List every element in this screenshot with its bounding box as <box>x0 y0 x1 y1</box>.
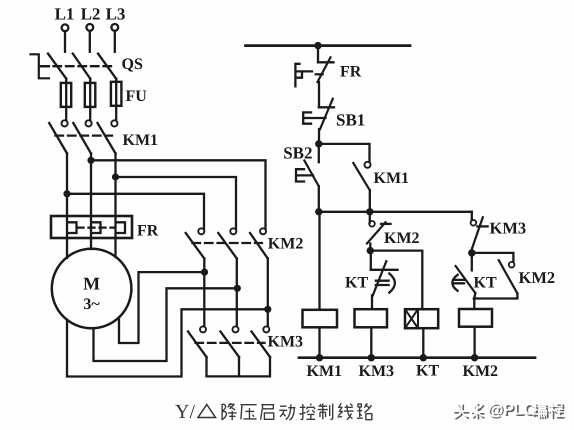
terminal L2 <box>86 24 93 31</box>
svg-text:L2: L2 <box>81 4 101 23</box>
wire node A to KM1 aux <box>319 144 370 162</box>
glyph 线 <box>337 403 353 419</box>
contactor KM1 main blade 2 <box>73 123 91 153</box>
wire KM2 coil to bottom rail <box>473 327 475 358</box>
contactor KM3 main blade 1 <box>188 332 207 358</box>
KT NO delay bars <box>453 280 464 283</box>
coil KM1 <box>303 310 338 328</box>
glyph 控 <box>299 404 315 420</box>
svg-text:KM2: KM2 <box>519 268 556 287</box>
KM3 NC interlock blade <box>472 217 483 248</box>
wire phase W KM1 to FR <box>114 153 116 216</box>
contactor KM2 linkage dashed <box>193 242 263 244</box>
wire top node to FR contact <box>317 46 319 63</box>
svg-text:KM3: KM3 <box>490 219 527 238</box>
svg-text:L1: L1 <box>55 4 75 23</box>
caption Chinese text 降压启动控制线路 <box>222 403 372 420</box>
KM3 NC interlock tick <box>477 225 487 227</box>
coil KM3 <box>355 309 388 327</box>
junction node E <box>468 249 475 256</box>
wire node E to KM2 aux <box>472 253 514 262</box>
svg-text:Y/: Y/ <box>175 401 195 423</box>
SB2 NO button blade <box>304 161 318 187</box>
FR heater element 1 <box>67 216 77 238</box>
wire phase V KM1 to FR <box>90 153 92 216</box>
wire QS to FU 1 <box>65 79 67 83</box>
control bottom rail <box>299 356 535 359</box>
KM2 aux NO blade <box>499 260 518 293</box>
contactor KM1 main hook 1 <box>62 120 68 126</box>
KM1 aux NO blade <box>353 163 370 190</box>
junction KM1 coil bottom <box>316 354 323 361</box>
SB1 button actuator E <box>303 112 325 123</box>
wire KT NO to KM2 coil <box>474 293 475 309</box>
KT NO delayed contact lead <box>471 253 473 271</box>
wire L3 to QS <box>114 31 116 52</box>
FR NC contact lower tick <box>316 73 323 75</box>
glyph 制 <box>318 404 333 420</box>
switch QS blade 3 <box>98 54 116 79</box>
switch QS linkage dashed <box>41 65 111 67</box>
control top rail <box>246 44 411 47</box>
contactor KM2 main hook 3 <box>260 228 266 234</box>
junction node C <box>366 208 373 215</box>
contactor KM2 main blade 2 <box>218 233 237 259</box>
wire KM3 coil to bottom rail <box>370 327 372 357</box>
watermark shadow layer <box>455 405 564 419</box>
FR thermal actuator symbol <box>295 64 312 87</box>
contactor KM1 main blade 3 <box>98 123 116 153</box>
wire KT NC to KM3 coil <box>371 295 373 309</box>
coil KM2 <box>459 309 492 327</box>
KT NC delayed contact blade <box>373 261 387 295</box>
wire motor terminal W2 wrap to KM2 pole1 bottom <box>119 272 206 343</box>
junction KM2 pole1 bottom <box>201 269 208 276</box>
KM3 NC interlock lead from rail <box>471 212 473 220</box>
contactor KM1 main hook 3 <box>111 120 117 126</box>
contactor KM2 main blade 3 <box>250 233 268 259</box>
svg-text:@PLC: @PLC <box>488 402 536 419</box>
wire U branch to KM2 pole1 <box>67 194 204 229</box>
control mid rail <box>319 211 472 213</box>
junction node U phase <box>63 190 70 197</box>
wire SB1 to node A <box>318 129 320 144</box>
FR NC contact blade <box>318 57 331 82</box>
KM1 aux NO hook <box>365 162 371 168</box>
KM3 NC interlock hook <box>471 220 477 226</box>
KM2 NC interlock blade <box>367 222 386 243</box>
svg-text:FR: FR <box>340 64 362 81</box>
svg-text:KT: KT <box>345 275 368 292</box>
svg-text:KM1: KM1 <box>307 363 343 380</box>
contactor KM3 main blade 2 <box>221 332 240 358</box>
junction node W phase <box>112 173 119 180</box>
contactor KM2 main hook 1 <box>198 228 204 234</box>
svg-text:QS: QS <box>122 56 143 73</box>
contactor KM1 linkage dashed <box>56 134 113 136</box>
contactor KM3 main hook 1 <box>200 326 206 332</box>
svg-text:KM2: KM2 <box>268 236 304 253</box>
svg-text:KM2: KM2 <box>463 363 499 380</box>
wire phase U KM1 to FR <box>66 153 68 216</box>
contactor KM3 main hook 3 <box>263 326 269 332</box>
KT NC delayed contact tick <box>371 269 398 271</box>
terminal L3 <box>111 24 118 31</box>
motor M circle <box>52 249 132 329</box>
wire L1 to QS <box>64 31 66 51</box>
KT NO delay arc <box>452 275 457 291</box>
fuse FU pole 2 <box>85 83 96 107</box>
switch QS blade 1 <box>48 54 66 79</box>
wire node D to KT coil <box>370 251 422 310</box>
svg-text:3~: 3~ <box>83 296 100 313</box>
wire KM3 NC to node E <box>471 249 474 253</box>
FR NC contact fixed tick <box>318 61 334 63</box>
wire FR to SB1 <box>318 82 320 107</box>
svg-text:KM3: KM3 <box>359 363 395 380</box>
contactor KM3 main blade 3 <box>252 332 271 358</box>
junction KM2 pole3 bottom <box>264 306 271 313</box>
KM3 star point bar <box>207 357 271 376</box>
fuse FU pole 1 <box>61 83 71 107</box>
junction KT coil bottom <box>420 354 427 361</box>
coil KT X box <box>405 309 418 328</box>
SB1 NC button blade <box>320 99 333 130</box>
contactor KM2 main hook 2 <box>230 228 236 234</box>
svg-text:M: M <box>83 274 100 294</box>
junction KM2 coil bottom <box>471 354 478 361</box>
svg-text:KM3: KM3 <box>268 334 304 351</box>
wire FR to motor U <box>66 238 68 258</box>
junction node A <box>315 140 322 147</box>
KT NC delayed contact lead <box>370 251 372 270</box>
thermal relay FR box <box>51 216 132 238</box>
junction node B <box>315 208 322 215</box>
SB2 NO button upper lead <box>318 144 320 162</box>
wire L2 to QS <box>89 31 91 52</box>
wire node B to KM1 coil <box>318 212 320 310</box>
switch QS blade 2 <box>73 54 91 79</box>
caption Y/delta label <box>175 401 216 423</box>
wire W branch to KM2 pole2 <box>116 177 237 229</box>
wire KM2 aux join <box>474 294 518 299</box>
junction KM3 coil bottom <box>368 354 375 361</box>
contactor KM1 main hook 2 <box>86 120 92 126</box>
contactor KM1 main blade 1 <box>49 123 67 153</box>
glyph 启 <box>261 405 274 420</box>
wire SB2 to node B <box>318 186 320 212</box>
contactor KM3 linkage dashed <box>196 342 265 344</box>
glyph 动 <box>279 404 295 420</box>
contactor KM3 main hook 2 <box>233 326 239 332</box>
svg-text:FU: FU <box>126 88 148 105</box>
SB2 button actuator E <box>296 169 313 181</box>
KM2 aux NO hook <box>509 262 515 268</box>
wire FR to motor V <box>90 238 92 249</box>
svg-text:KM1: KM1 <box>374 170 410 187</box>
contactor KM2 main blade 1 <box>186 233 205 259</box>
fuse FU pole 3 <box>111 82 122 106</box>
KM2 NC interlock tick <box>381 223 391 225</box>
wire KM2 NC to node D <box>369 244 371 251</box>
glyph 降 <box>222 403 237 420</box>
watermark 头条 @PLC编程 <box>453 402 564 421</box>
wire motor terminal U2 wrap to KM2 pole2 bottom <box>94 288 239 361</box>
switch QS handle <box>31 54 50 78</box>
svg-text:KT: KT <box>474 274 497 291</box>
SB1 NC button fixed tick <box>319 106 334 108</box>
FR heater element 2 <box>91 216 101 238</box>
terminal L1 <box>62 24 69 31</box>
svg-text:KM1: KM1 <box>123 132 159 149</box>
svg-text:FR: FR <box>137 223 159 240</box>
KT NO delayed contact blade <box>456 266 476 293</box>
wire motor terminal V2 wrap to KM2 pole3 bottom <box>67 309 268 376</box>
KM2 NC interlock hook <box>369 221 375 227</box>
glyph 压 <box>240 405 256 420</box>
wire FR to motor W <box>114 238 116 257</box>
svg-text:SB1: SB1 <box>336 110 365 129</box>
junction KM2 pole2 bottom <box>234 285 241 292</box>
wire KM2 pole1 to KM3 pole1 <box>203 259 205 327</box>
svg-text:L3: L3 <box>106 4 126 23</box>
glyph 路 <box>357 403 372 419</box>
svg-text:SB2: SB2 <box>283 144 312 163</box>
wire QS to FU 3 <box>115 79 117 82</box>
watermark white layer <box>453 403 562 417</box>
svg-text:KM2: KM2 <box>384 230 420 247</box>
FR heater element 3 <box>116 216 126 238</box>
wire KT coil to bottom rail <box>422 328 424 358</box>
FR heater linkage dashed <box>78 226 116 228</box>
junction node V phase <box>87 157 94 164</box>
coil KT <box>405 309 438 328</box>
wire V branch to KM2 pole3 <box>91 160 266 228</box>
wire KM1 coil to bottom rail <box>318 327 320 357</box>
wire QS to FU 2 <box>89 79 91 83</box>
svg-text:KT: KT <box>416 363 439 380</box>
wire KM2 pole2 to KM3 pole2 <box>236 259 238 327</box>
wire KM1 aux to rail <box>369 190 371 212</box>
KM2 NC interlock upper lead <box>369 212 371 223</box>
junction node D <box>367 247 374 254</box>
KT NC delay bars <box>376 281 389 285</box>
junction control top node <box>314 42 321 49</box>
KT NC delay arc <box>389 274 395 293</box>
wire KM2 pole3 to KM3 pole3 <box>267 259 269 327</box>
